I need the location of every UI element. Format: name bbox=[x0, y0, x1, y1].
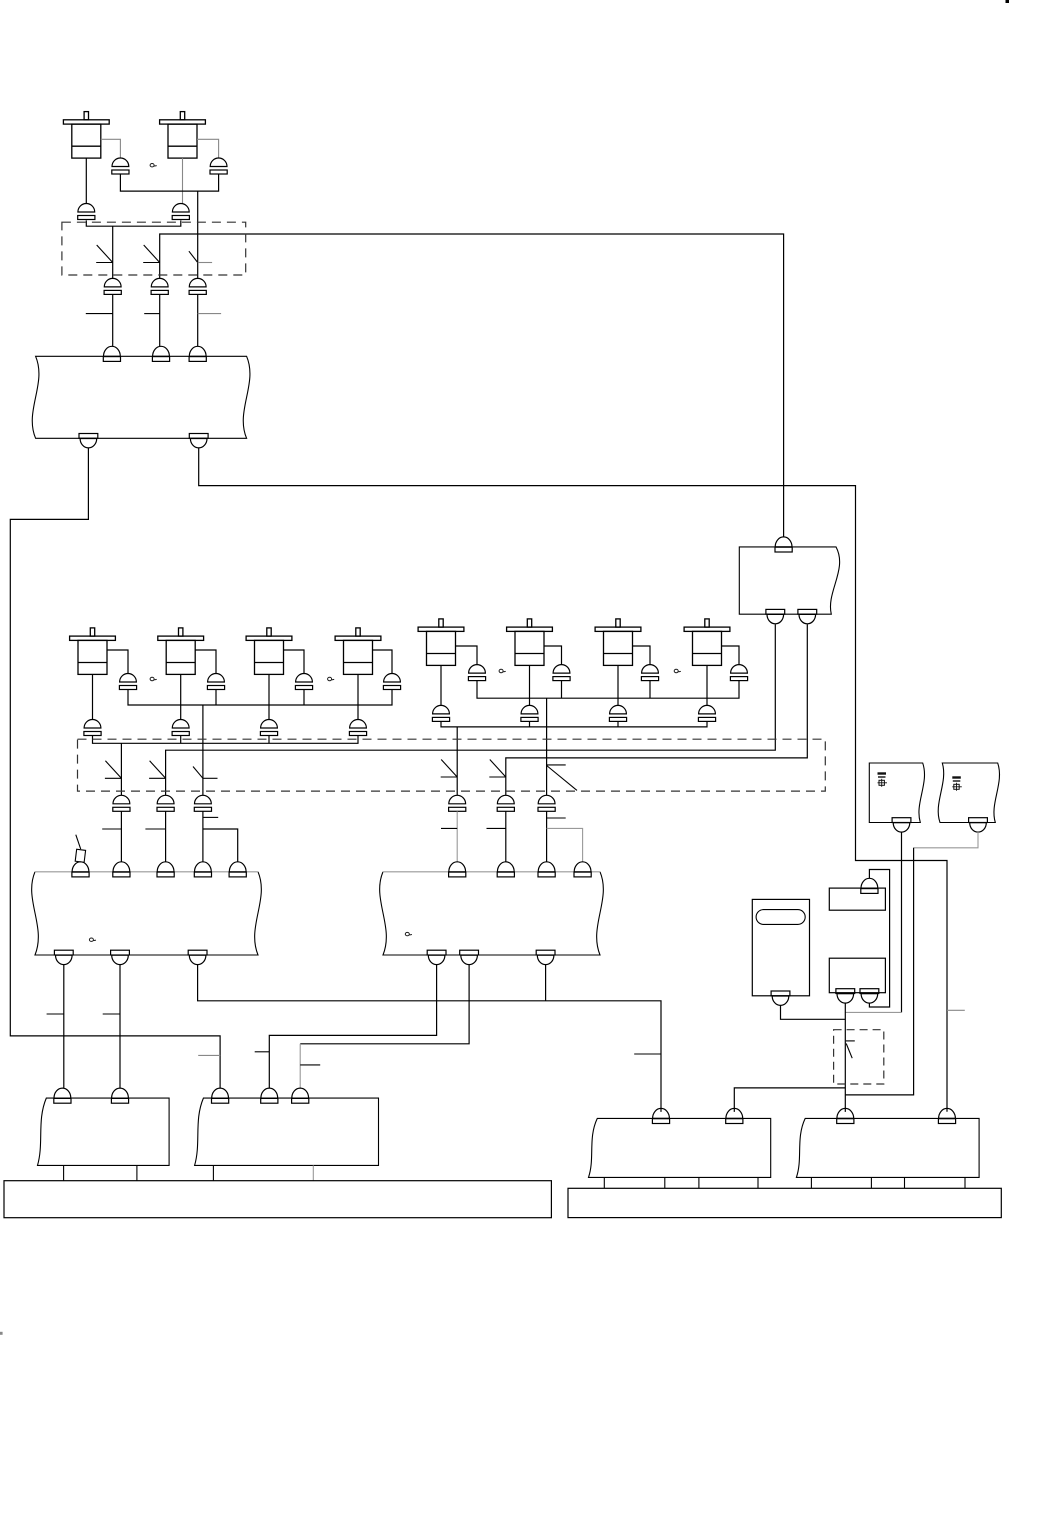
page mark top bbox=[1006, 0, 1010, 3]
fuse F1 body bbox=[829, 888, 885, 910]
module D leg 1 bbox=[212, 1165, 214, 1180]
wire tap motor bus group2 to splice bbox=[456, 727, 458, 795]
wire C2a to module A pin2 bbox=[120, 811, 122, 862]
tick on wire B out1 bbox=[255, 1051, 270, 1053]
wire F2 out1 down through switch box to module F pin1 bbox=[844, 1003, 846, 1112]
connector K10 bbox=[730, 665, 747, 681]
wire M8 side lead bbox=[544, 646, 562, 665]
motor M5 bbox=[246, 628, 292, 675]
wire H2 out jog left bbox=[914, 832, 978, 848]
wire M4 center lead bbox=[180, 674, 182, 719]
splice S1 bbox=[96, 245, 113, 263]
label scribble in H1 bbox=[878, 774, 888, 787]
tick on wire C2b bbox=[145, 828, 165, 830]
connector U1 pin3 top bbox=[189, 346, 206, 361]
connector C1c bbox=[189, 278, 206, 294]
tick on wire at right column bbox=[947, 1009, 965, 1011]
tick on wire C2d bbox=[441, 827, 457, 829]
wire M10 side lead bbox=[722, 646, 740, 665]
fuse F2 body bbox=[829, 958, 885, 993]
wire tap from side bus down to splice S3 bbox=[197, 191, 199, 278]
label 9 between M5 and M6 bbox=[328, 677, 335, 680]
connector B10 bbox=[698, 705, 715, 721]
module C body (torn left edge) bbox=[38, 1098, 170, 1165]
wire M7 side lead bbox=[456, 646, 478, 665]
tick on wire A out1 bbox=[47, 1013, 64, 1015]
connector U1 pin2 top bbox=[152, 346, 169, 361]
connector B3 bbox=[84, 720, 101, 736]
connector K6 bbox=[383, 674, 400, 690]
connector K1 bbox=[112, 158, 129, 174]
connector E pin1 bbox=[652, 1108, 669, 1123]
relay R1 body bbox=[752, 899, 809, 995]
tick on wire C2a bbox=[102, 828, 121, 830]
tick on wire C2c bbox=[203, 816, 218, 818]
wire M9 center lead bbox=[617, 665, 619, 705]
connector D pin1 bbox=[212, 1088, 229, 1103]
connector B7 bbox=[432, 705, 449, 721]
connector C2d bbox=[449, 795, 466, 811]
connector B pin3 bbox=[538, 862, 555, 877]
wire side bus group2 bbox=[477, 681, 739, 699]
wire side bus group1 bbox=[128, 690, 392, 706]
wire M6 side lead bbox=[373, 650, 393, 674]
wire C1c to module1 bbox=[197, 294, 199, 346]
connector C2a bbox=[113, 795, 130, 811]
connector H1 out bbox=[892, 818, 911, 832]
wire bracket loop F2 out2 to F1 pin bbox=[869, 870, 889, 1008]
label 9 between M3 and M4 bbox=[150, 677, 157, 680]
wire M2 side lead bbox=[197, 139, 219, 158]
wire B out2 gray drop bbox=[299, 1044, 301, 1088]
tick on wire C2e bbox=[487, 827, 506, 829]
module G body (torn right edge) bbox=[739, 547, 839, 614]
wire C2f to module B pin3 bbox=[546, 811, 548, 862]
connector F2 out1 bbox=[836, 989, 855, 1003]
wire C2c to module A pin4 bbox=[202, 811, 204, 862]
motor M10 bbox=[684, 619, 730, 666]
wire motor bus group2 bbox=[441, 721, 707, 727]
connector B8 bbox=[521, 705, 538, 721]
wire A out1 to module C pin1 bbox=[63, 965, 65, 1089]
wire M9 side lead bbox=[633, 646, 651, 665]
connector K3 bbox=[119, 674, 136, 690]
connector E pin2 bbox=[726, 1108, 743, 1123]
connector C2c bbox=[194, 795, 211, 811]
module H1 body (torn right edge) bbox=[869, 763, 924, 823]
tick on wire B out2 bbox=[300, 1064, 320, 1066]
connector B9 bbox=[609, 705, 626, 721]
connector C1b bbox=[151, 278, 168, 294]
wire H2 long drop to module F pin1 bbox=[845, 848, 913, 1095]
wire M6 center lead bbox=[357, 674, 359, 719]
connector C2b bbox=[157, 795, 174, 811]
splice S2 bbox=[143, 245, 160, 263]
wire M4 side lead bbox=[195, 650, 216, 674]
connector B out1 bbox=[427, 950, 446, 964]
connector K8 bbox=[553, 665, 570, 681]
splice S4 bbox=[105, 761, 122, 779]
connector A pin1 bbox=[72, 862, 89, 877]
wire branch C2f to module B pin4 bbox=[547, 828, 583, 862]
splice S5 bbox=[149, 761, 166, 779]
wire side bus K1-K2 bbox=[120, 174, 218, 191]
wire H1 out down to fuse node bbox=[901, 832, 903, 1013]
connector H2 out bbox=[969, 818, 988, 832]
connector D pin3 bbox=[292, 1088, 309, 1103]
splice S3 bbox=[189, 251, 212, 262]
wire long feed to module G top (node) bbox=[160, 234, 784, 537]
wire M3 side lead bbox=[107, 650, 128, 674]
wire M5 side lead bbox=[284, 650, 305, 674]
module C leg 2 bbox=[136, 1165, 138, 1180]
module H2 body (torn both edges) bbox=[938, 763, 999, 823]
connector C pin2 bbox=[111, 1088, 128, 1103]
module U1 body (torn-edge box) bbox=[32, 356, 250, 438]
splice S9 (switch style) bbox=[547, 765, 577, 791]
connector B2 bbox=[172, 204, 189, 220]
connector A out3 bbox=[188, 950, 207, 964]
wire M1 center lead bbox=[85, 158, 87, 203]
splice S6 bbox=[193, 767, 218, 779]
wire tap side bus group1 to splice bbox=[202, 705, 204, 795]
wire C1b to module1 bbox=[159, 294, 161, 346]
connector F2 out2 bbox=[860, 989, 879, 1003]
module F legs bbox=[811, 1177, 965, 1188]
wire B out1 to module D pin2 bbox=[269, 965, 436, 1089]
mounting baseplate left bbox=[4, 1181, 551, 1218]
motor M3 bbox=[70, 628, 116, 675]
tick on wire C1c bbox=[198, 313, 221, 315]
module E body (torn left edge) bbox=[589, 1118, 771, 1177]
wire M1 side lead bbox=[101, 139, 121, 158]
wire L3 from splice up to module G out2 bbox=[506, 624, 808, 795]
connector C2f bbox=[538, 795, 555, 811]
connector G pin top bbox=[775, 537, 792, 552]
module A body (torn-edge box) bbox=[32, 872, 262, 955]
connector F pin2 bbox=[938, 1108, 955, 1123]
wire U1 out1 long route to module D pin1 bbox=[10, 448, 220, 1088]
wire M7 center lead bbox=[440, 665, 442, 705]
mounting baseplate right bbox=[568, 1188, 1001, 1217]
wire bottom bus B1-B2 bbox=[86, 220, 181, 226]
wire tap side bus group2 to big splice bbox=[546, 698, 548, 795]
connector A pin4 bbox=[194, 862, 211, 877]
connector B pin2 bbox=[497, 862, 514, 877]
tick on wire C2f bbox=[547, 817, 566, 819]
module A top edge bbox=[35, 871, 258, 873]
connector B pin1 bbox=[449, 862, 466, 877]
wire L2 from splice up to module G out1 bbox=[166, 624, 776, 795]
connector A out2 bbox=[111, 950, 130, 964]
module D body (torn left edge) bbox=[195, 1098, 379, 1165]
tick on wire C1b bbox=[144, 313, 160, 315]
wire module E pin2 link to F pin1 node bbox=[734, 1088, 845, 1112]
connector B4 bbox=[172, 720, 189, 736]
connector F pin1 bbox=[837, 1108, 854, 1123]
wire B out3 joins A out3 feed bbox=[545, 965, 547, 1001]
tick on wire A out2 bbox=[103, 1013, 120, 1015]
fuse lever flag at module A pin1 bbox=[75, 835, 85, 863]
wire C1a to module1 bbox=[112, 294, 114, 346]
module B top edge bbox=[383, 871, 600, 873]
connector K2 bbox=[210, 158, 227, 174]
tick on wire A out3 drop bbox=[634, 1053, 661, 1055]
module C leg 1 bbox=[63, 1165, 65, 1180]
label 9 between M7 and M8 bbox=[499, 669, 506, 672]
connector C1a bbox=[104, 278, 121, 294]
wire R1 out to fuse node bbox=[781, 1005, 846, 1019]
connector A pin5 bbox=[229, 862, 246, 877]
wire M5 center lead bbox=[268, 674, 270, 719]
connector K5 bbox=[295, 674, 312, 690]
wire tap from bottom bus to splice S1 bbox=[112, 226, 114, 278]
connector B out3 bbox=[536, 950, 555, 964]
connector U1 out2 bottom bbox=[189, 434, 208, 448]
wire M10 center lead bbox=[706, 665, 708, 705]
tick on wire C1a bbox=[86, 313, 113, 315]
connector D pin2 bbox=[261, 1088, 278, 1103]
motor M4 bbox=[158, 628, 204, 675]
connector U1 out1 bottom bbox=[79, 434, 98, 448]
junction block dashed box JB2 bbox=[78, 739, 826, 791]
connector C2e bbox=[497, 795, 514, 811]
label 9 in module B bbox=[405, 932, 412, 935]
switch symbol in JB3 bbox=[846, 1041, 855, 1058]
wire M8 center lead bbox=[529, 665, 531, 705]
motor M7 bbox=[418, 619, 464, 666]
connector U1 pin1 top bbox=[103, 346, 120, 361]
wire branch C2c to module A pin5 bbox=[203, 829, 238, 862]
label 9 between M1 and M2 bbox=[150, 164, 157, 167]
connector K7 bbox=[468, 665, 485, 681]
motor M1 bbox=[63, 112, 109, 159]
motor M6 bbox=[335, 628, 381, 675]
splice S7 bbox=[441, 760, 458, 778]
label 9 in module A bbox=[89, 938, 96, 941]
connector G out2 bottom bbox=[798, 609, 817, 623]
connector K9 bbox=[641, 665, 658, 681]
module E legs bbox=[604, 1177, 758, 1188]
wire M2 center lead bbox=[182, 158, 184, 203]
connector A pin2 bbox=[113, 862, 130, 877]
motor M2 bbox=[160, 112, 206, 159]
wire C2d to module B pin1 bbox=[456, 811, 458, 862]
motor M8 bbox=[507, 619, 553, 666]
connector C pin1 bbox=[54, 1088, 71, 1103]
wire fuse node to H1 drop (gray link) bbox=[845, 1011, 901, 1013]
label scribble in H2 bbox=[952, 778, 962, 791]
connector F1 pin top bbox=[861, 878, 878, 893]
module F body (torn left edge) bbox=[796, 1118, 979, 1177]
wire C2b to module A pin3 bbox=[165, 811, 167, 862]
wire A out3 to module E pin1 bbox=[198, 965, 661, 1112]
splice S8 bbox=[489, 760, 506, 778]
wire U1 out2 long route to module F pin2 bbox=[199, 448, 947, 1112]
connector K4 bbox=[207, 674, 224, 690]
label 9 between M9 and M10 bbox=[674, 669, 681, 672]
connector B out2 bbox=[460, 950, 479, 964]
page mark left bbox=[0, 1332, 3, 1335]
connector B1 bbox=[78, 204, 95, 220]
wire B out2 to module D pin3 bbox=[300, 965, 469, 1044]
wire C2e to module B pin2 bbox=[505, 811, 507, 862]
module B body (torn-edge box) bbox=[380, 872, 604, 955]
connector B6 bbox=[349, 720, 366, 736]
wire tap motor bus group1 to splice bbox=[120, 743, 122, 795]
wire M3 center lead bbox=[92, 674, 94, 719]
junction block dashed box JB1 bbox=[62, 222, 246, 275]
module D leg 2 bbox=[312, 1165, 314, 1180]
switch dashed box JB3 bbox=[834, 1030, 884, 1084]
connector A out1 bbox=[54, 950, 73, 964]
motor M9 bbox=[595, 619, 641, 666]
wire motor bus group1 bbox=[93, 736, 359, 743]
connector B pin4 bbox=[574, 862, 591, 877]
connector A pin3 bbox=[157, 862, 174, 877]
relay R1 coil capsule bbox=[756, 910, 805, 925]
connector R1 out bbox=[771, 991, 790, 1005]
connector B5 bbox=[260, 720, 277, 736]
connector G out1 bottom bbox=[766, 609, 785, 623]
wire A out2 to module C pin2 bbox=[119, 965, 121, 1089]
tick on wire near module D pin1 bbox=[198, 1054, 220, 1056]
